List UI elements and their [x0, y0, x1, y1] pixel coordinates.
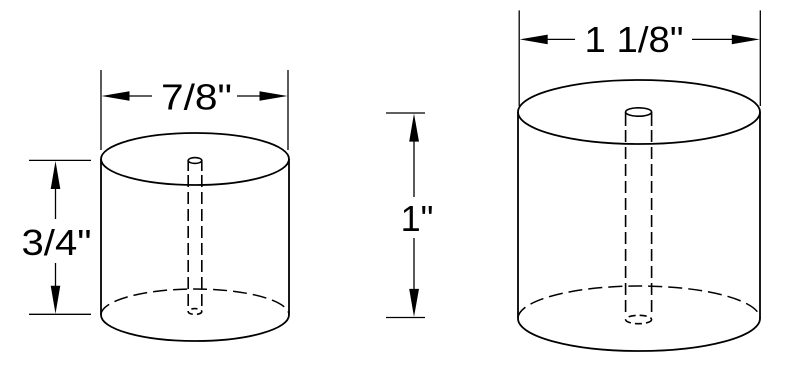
- right cylinder hole: [626, 108, 652, 324]
- extension line left: [100, 70, 102, 150]
- dimension line upper segment: [413, 139, 415, 197]
- left hole bottom ellipse hidden: [188, 309, 202, 315]
- left hole hidden side right: [201, 175, 203, 312]
- left cylinder top ellipse: [101, 133, 289, 185]
- left cylinder right side: [288, 159, 290, 315]
- dimension line right segment: [692, 38, 734, 40]
- arrowhead top of 1": [409, 114, 419, 142]
- left width dimension 7/8": [101, 70, 288, 150]
- left height dimension 3/4": [29, 160, 91, 314]
- right cylinder body: [518, 80, 760, 351]
- left hole hidden side left: [187, 175, 189, 312]
- arrowhead left of 1 1/8": [520, 35, 548, 45]
- left hole visible side left: [187, 161, 189, 172]
- dimension line upper segment: [55, 186, 57, 219]
- svg-text:1": 1": [401, 198, 434, 239]
- right hole visible side left: [625, 112, 627, 126]
- extension line top: [29, 159, 91, 161]
- extension line top: [386, 112, 425, 114]
- left cylinder hole: [188, 158, 202, 315]
- right hole hidden side right: [651, 130, 653, 317]
- svg-text:1 1/8": 1 1/8": [585, 19, 684, 60]
- arrowhead left of 7/8": [102, 91, 130, 101]
- left cylinder bottom front arc: [101, 315, 289, 341]
- right width dimension 1 1/8": [519, 10, 760, 106]
- dimension line lower segment: [55, 263, 57, 288]
- right cylinder bottom hidden arc: [518, 286, 760, 319]
- dimension line left segment: [128, 95, 152, 97]
- svg-text:3/4": 3/4": [22, 222, 92, 263]
- left cylinder left side: [100, 159, 102, 315]
- extension line bottom: [29, 313, 91, 315]
- arrowhead right of 1 1/8": [732, 35, 760, 45]
- extension line left: [518, 10, 520, 106]
- arrowhead top of 3/4": [51, 161, 61, 189]
- left hole top ellipse: [188, 158, 202, 164]
- extension line right: [287, 70, 289, 150]
- right cylinder top ellipse: [518, 80, 760, 144]
- right hole top ellipse: [626, 108, 652, 116]
- dimension line right segment: [237, 95, 261, 97]
- arrowhead bottom of 3/4": [51, 286, 61, 314]
- left hole visible side right: [201, 161, 203, 172]
- extension line bottom: [386, 317, 425, 319]
- right height dimension 1": [386, 113, 425, 318]
- dimension line left segment: [546, 38, 575, 40]
- extension line right: [759, 10, 761, 106]
- arrowhead right of 7/8": [260, 91, 288, 101]
- dimension line lower segment: [413, 238, 415, 291]
- right cylinder right side: [759, 112, 761, 319]
- right hole bottom ellipse hidden: [626, 315, 652, 323]
- left cylinder bottom hidden arc: [101, 289, 289, 315]
- right cylinder left side: [517, 112, 519, 319]
- svg-text:7/8": 7/8": [161, 77, 232, 118]
- left cylinder body: [101, 133, 289, 341]
- arrowhead bottom of 1": [409, 289, 419, 317]
- right hole hidden side left: [625, 130, 627, 317]
- right hole visible side right: [651, 112, 653, 126]
- right cylinder bottom front arc: [518, 319, 760, 352]
